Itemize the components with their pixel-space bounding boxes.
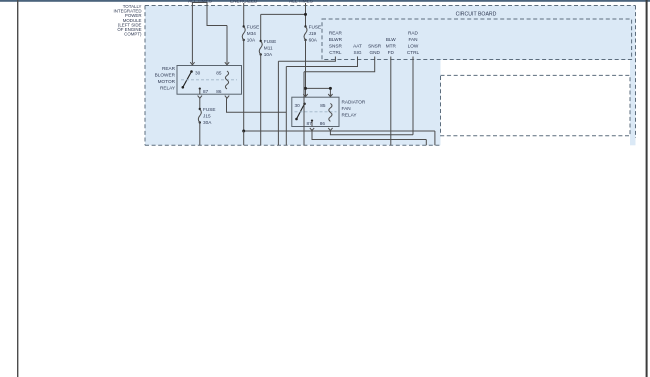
radiator fan relay box — [292, 97, 339, 126]
svg-text:COMPT): COMPT) — [124, 32, 142, 37]
page right border — [646, 0, 648, 377]
svg-text:FUSE: FUSE — [203, 107, 216, 112]
svg-text:87: 87 — [307, 121, 313, 126]
svg-text:SNSR: SNSR — [329, 44, 343, 49]
wire snsr gnd to exit 22 — [304, 57, 375, 146]
wire radiator 86 to rad fan low ctrl — [330, 57, 413, 135]
svg-text:M11: M11 — [264, 46, 273, 51]
junction dot M34 branch — [242, 130, 245, 133]
svg-text:CTRL: CTRL — [407, 50, 420, 55]
wire snsr ctrl to exit 15 — [278, 57, 335, 146]
svg-text:M34: M34 — [247, 31, 257, 36]
svg-text:FUSE: FUSE — [247, 25, 260, 30]
radiator relay coil 85-86 — [320, 103, 332, 126]
svg-text:30: 30 — [295, 103, 301, 108]
wire M34 to junction row — [244, 40, 435, 145]
svg-text:FAN: FAN — [342, 106, 351, 111]
fuse M11 — [259, 39, 276, 57]
fuse J15 — [198, 107, 215, 125]
circuit board label BLW MTR FD — [386, 37, 397, 55]
svg-text:10A: 10A — [247, 37, 256, 42]
wire M11 to exit 30 — [260, 55, 262, 146]
circuit board label AAT SIG — [353, 44, 362, 56]
TIPM dashed outline — [145, 6, 636, 146]
svg-text:MOTOR: MOTOR — [158, 79, 176, 84]
svg-text:J15: J15 — [203, 114, 211, 119]
relay switch 30-87 — [182, 70, 209, 94]
junction dot J19 feed — [304, 13, 307, 16]
svg-text:MTR: MTR — [386, 44, 397, 49]
svg-text:ENERGIZED: ENERGIZED — [230, 0, 258, 3]
feed stub to fuse M34 — [243, 3, 245, 26]
svg-text:BLW: BLW — [386, 37, 396, 42]
svg-text:30A: 30A — [203, 120, 212, 125]
circuit board connector white area — [441, 60, 631, 147]
radiator relay dashed centerline — [295, 111, 337, 113]
svg-text:CTRL: CTRL — [329, 50, 342, 55]
relay 87 exit arrow — [198, 96, 202, 99]
svg-text:FUSE: FUSE — [309, 25, 322, 30]
svg-text:RAD: RAD — [408, 31, 419, 36]
radiator relay 85 terminal arrow — [328, 94, 332, 97]
wire radiator 87 to exit 8 — [312, 131, 426, 146]
svg-text:FD: FD — [388, 50, 395, 55]
radiator relay 87 exit arrow — [310, 128, 314, 131]
svg-text:FUSE: FUSE — [264, 39, 277, 44]
relay coil 85-86 — [216, 71, 228, 94]
relay 86 exit arrow — [225, 96, 229, 99]
svg-text:AAT: AAT — [353, 44, 362, 49]
radiator relay 86 exit arrow — [328, 128, 332, 131]
svg-text:CIRCUIT BOARD: CIRCUIT BOARD — [456, 12, 497, 18]
wire blw mtr fd to exit 5 — [390, 57, 392, 146]
wire aat sig to exit 14 — [286, 57, 357, 146]
svg-text:86: 86 — [320, 121, 326, 126]
wire M34 branch to exit 19 — [243, 131, 245, 145]
rear blower motor relay caption — [155, 66, 176, 91]
relay 30 terminal arrow — [190, 62, 194, 65]
svg-text:86: 86 — [216, 89, 222, 94]
circuit board dashed box — [322, 19, 632, 60]
rear blower motor relay box — [177, 66, 242, 95]
junction dots radiator relay feeds — [304, 87, 307, 90]
wire relay 87 to fuse J15 — [199, 98, 201, 108]
wire relay 86 to snsr ctrl column — [227, 98, 287, 112]
svg-text:REAR: REAR — [329, 31, 343, 36]
svg-text:RELAY: RELAY — [342, 112, 358, 117]
svg-text:BLOWER: BLOWER — [155, 72, 176, 77]
circuit board label REAR BLWR SNSR CTRL — [329, 31, 343, 56]
svg-text:RADIATOR: RADIATOR — [342, 99, 366, 104]
svg-text:87: 87 — [203, 89, 209, 94]
wire fuse J15 to exit 26 — [199, 123, 201, 146]
TIPM caption — [114, 4, 143, 37]
circuit board connector dashed box — [441, 75, 631, 135]
page left border — [17, 0, 18, 377]
svg-text:10A: 10A — [264, 52, 273, 57]
radiator fan relay caption — [342, 99, 366, 117]
wire J19 to radiator relay 30 and 85 — [306, 40, 331, 97]
svg-text:GND: GND — [369, 50, 380, 55]
svg-text:LOW: LOW — [408, 44, 419, 49]
fuse J19 — [304, 25, 321, 43]
svg-text:85: 85 — [320, 103, 326, 108]
circuit board label RAD FAN LOW CTRL — [407, 31, 420, 56]
radiator relay switch 30-87 — [295, 103, 314, 127]
TIPM module fill — [145, 6, 636, 146]
relay dashed centerline — [181, 79, 237, 81]
svg-text:BLWR: BLWR — [329, 37, 343, 42]
svg-text:ALL TIMES: ALL TIMES — [289, 0, 313, 3]
svg-text:30: 30 — [195, 71, 201, 76]
svg-text:SIG: SIG — [353, 50, 361, 55]
fuse M34 — [242, 25, 259, 43]
svg-text:REAR: REAR — [162, 66, 176, 71]
relay 85 terminal arrow — [225, 62, 229, 65]
svg-text:J19: J19 — [309, 31, 317, 36]
circuit board label SNSR GND — [368, 44, 382, 56]
feed wire to relay 30 and 85 — [192, 3, 227, 64]
radiator relay 30 terminal arrow — [303, 94, 307, 97]
svg-text:RELAY: RELAY — [160, 85, 176, 90]
svg-text:85: 85 — [216, 71, 222, 76]
svg-text:SNSR: SNSR — [368, 44, 382, 49]
svg-text:60A: 60A — [309, 37, 318, 42]
feed stub to fuse J19 and M11 — [261, 3, 306, 41]
svg-text:FAN: FAN — [408, 37, 417, 42]
page top border — [0, 0, 650, 2]
